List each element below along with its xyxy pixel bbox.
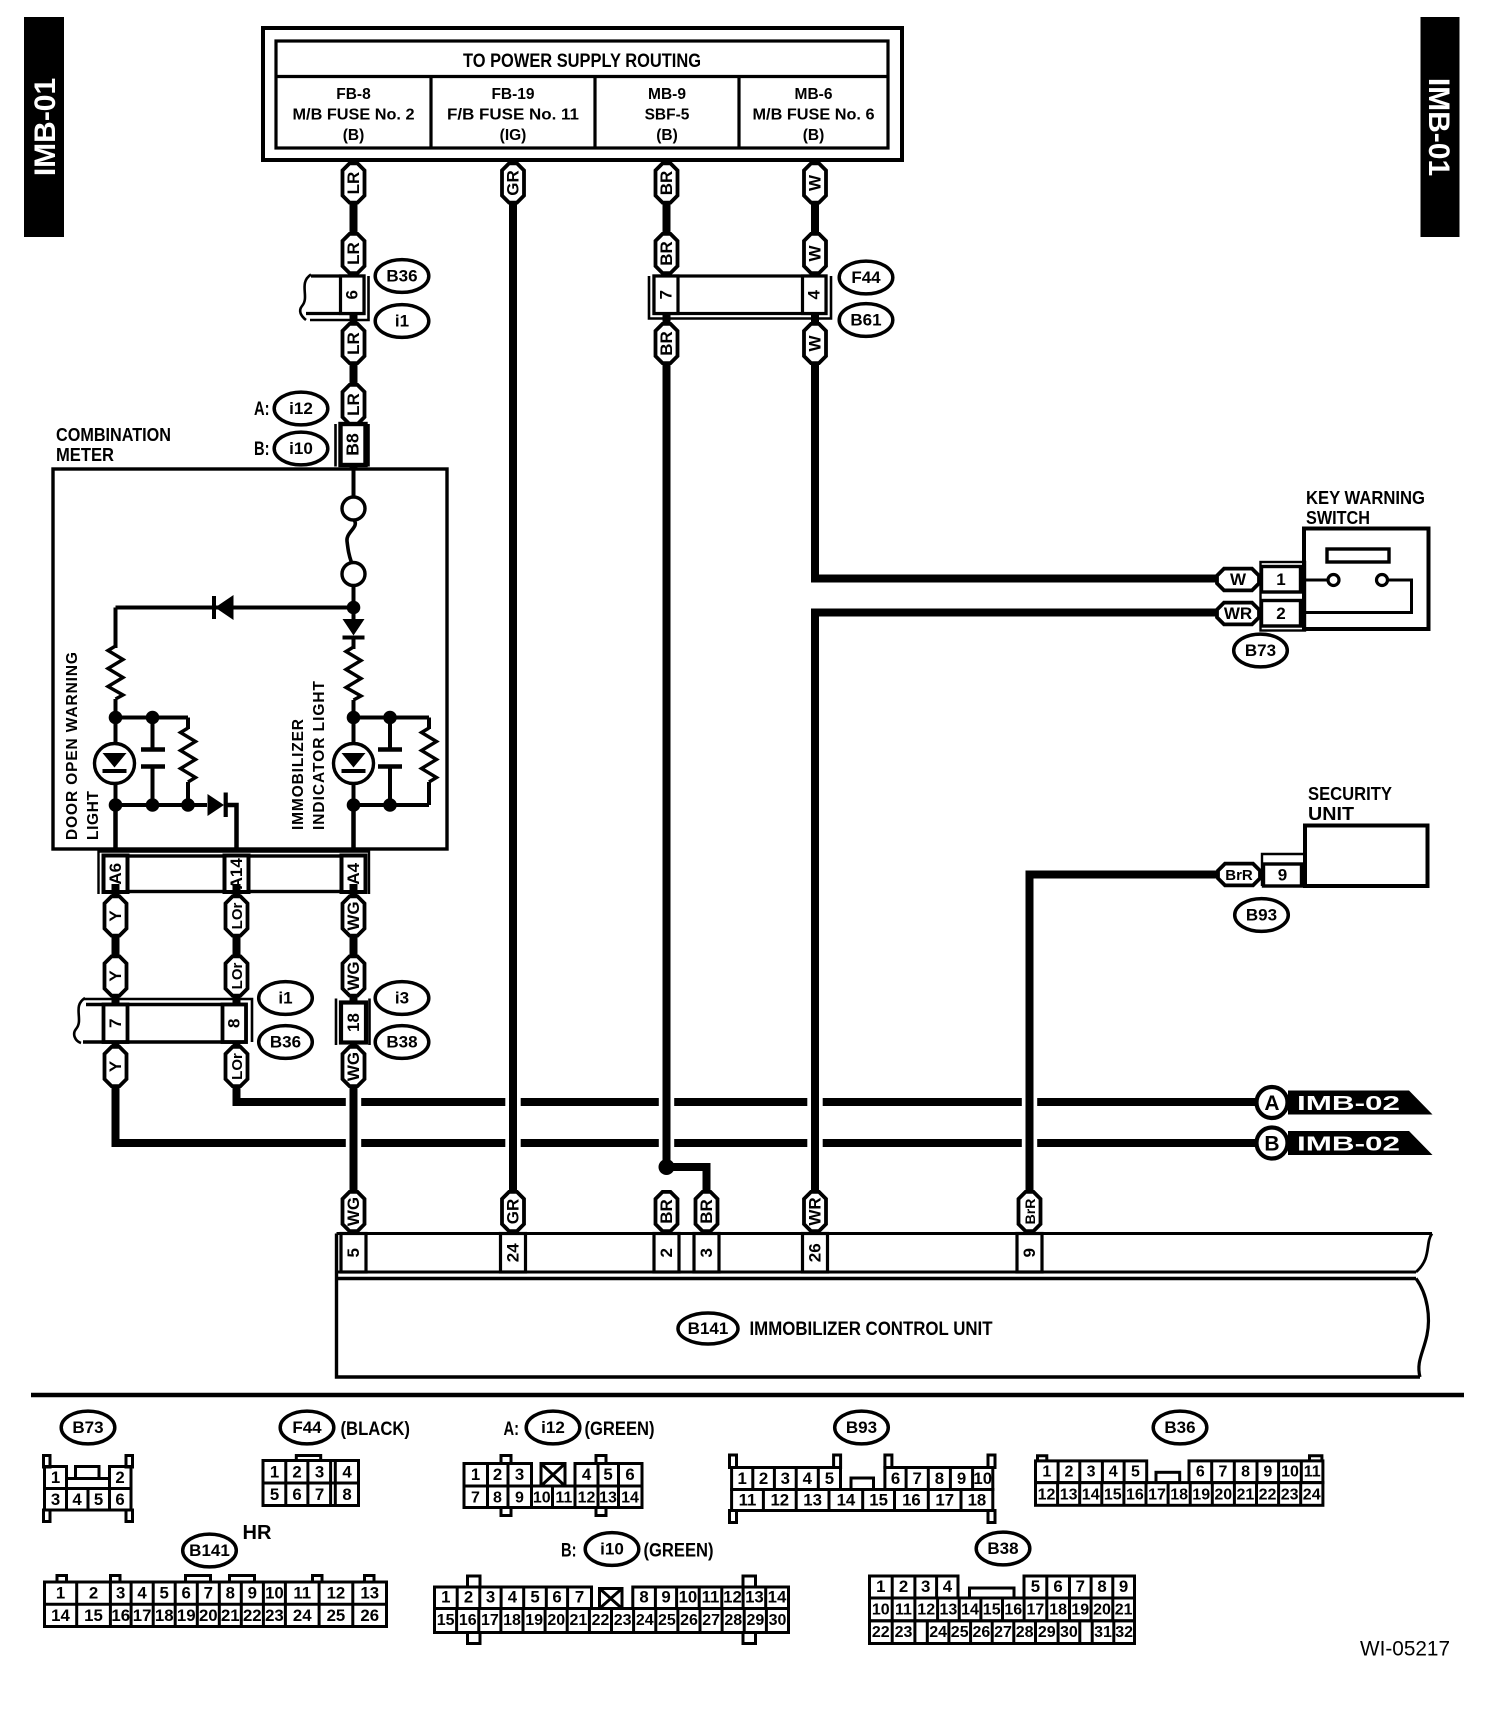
svg-text:11: 11 <box>1304 1464 1321 1481</box>
pin cell 2 <box>654 1234 679 1273</box>
svg-text:17: 17 <box>133 1606 152 1625</box>
connector tag WG <box>343 956 365 995</box>
svg-text:22: 22 <box>1259 1487 1277 1504</box>
svg-text:8: 8 <box>342 1485 351 1504</box>
svg-text:LR: LR <box>344 172 363 195</box>
svg-text:1: 1 <box>56 1584 65 1603</box>
svg-text:8: 8 <box>493 1490 502 1507</box>
svg-text:12: 12 <box>770 1491 789 1510</box>
pin cell 9 <box>1264 864 1302 886</box>
svg-text:8: 8 <box>935 1469 944 1488</box>
in-line connector B36/i1 cell 6 <box>300 275 368 321</box>
svg-text:23: 23 <box>1281 1487 1299 1504</box>
svg-text:5: 5 <box>94 1490 103 1509</box>
svg-text:21: 21 <box>1237 1487 1255 1504</box>
connector label oval B61 <box>839 304 893 337</box>
svg-text:16: 16 <box>459 1612 477 1629</box>
svg-text:22: 22 <box>592 1612 610 1629</box>
svg-text:i3: i3 <box>395 988 409 1007</box>
svg-text:WG: WG <box>344 961 363 990</box>
svg-text:14: 14 <box>768 1588 787 1607</box>
svg-text:4: 4 <box>137 1584 147 1603</box>
svg-text:16: 16 <box>1004 1602 1022 1619</box>
node meter junction <box>347 601 361 615</box>
svg-text:3: 3 <box>116 1584 125 1603</box>
svg-text:4: 4 <box>582 1465 592 1484</box>
svg-text:10: 10 <box>872 1602 890 1619</box>
svg-text:23: 23 <box>895 1624 913 1641</box>
capacitor C1 <box>141 750 165 767</box>
svg-text:WI-05217: WI-05217 <box>1360 1637 1450 1661</box>
security unit box <box>1305 784 1428 886</box>
wire to door open warning branch <box>116 606 354 610</box>
svg-text:B: B <box>1264 1133 1279 1156</box>
svg-text:FB-8: FB-8 <box>336 86 371 103</box>
pin cell 3 <box>694 1234 719 1273</box>
svg-text:1: 1 <box>1042 1464 1051 1481</box>
in-line connector F44/B61 <box>649 276 831 319</box>
svg-text:1: 1 <box>876 1577 885 1596</box>
wire <box>186 782 190 805</box>
svg-text:LR: LR <box>344 332 363 355</box>
wire <box>114 608 118 649</box>
svg-text:A6: A6 <box>106 863 125 885</box>
svg-text:5: 5 <box>825 1469 834 1488</box>
svg-text:17: 17 <box>1148 1487 1166 1504</box>
svg-text:6: 6 <box>1053 1577 1062 1596</box>
svg-text:10: 10 <box>679 1588 698 1607</box>
svg-text:(GREEN): (GREEN) <box>585 1419 655 1440</box>
svg-text:6: 6 <box>292 1485 301 1504</box>
svg-text:A: A <box>1264 1092 1279 1115</box>
svg-text:3: 3 <box>51 1490 60 1509</box>
svg-text:BR: BR <box>657 331 676 356</box>
svg-text:3: 3 <box>515 1465 524 1484</box>
svg-text:9: 9 <box>515 1490 524 1507</box>
svg-text:7: 7 <box>204 1584 213 1603</box>
connector label oval F44 <box>839 261 893 294</box>
svg-text:11: 11 <box>895 1602 912 1619</box>
svg-text:11: 11 <box>293 1584 311 1603</box>
pin cell 8 <box>223 1005 247 1043</box>
connector tag W <box>804 234 826 273</box>
svg-text:10: 10 <box>1281 1464 1299 1481</box>
svg-text:26: 26 <box>805 1243 824 1262</box>
svg-text:16: 16 <box>111 1606 130 1625</box>
svg-text:BR: BR <box>657 241 676 266</box>
svg-text:W: W <box>806 335 825 352</box>
connector label oval i1 <box>375 305 429 338</box>
wire to A4 <box>351 805 356 852</box>
svg-text:2: 2 <box>657 1248 676 1257</box>
svg-text:LR: LR <box>344 393 363 416</box>
svg-text:2: 2 <box>759 1469 768 1488</box>
svg-text:6: 6 <box>1196 1464 1205 1481</box>
svg-text:BrR: BrR <box>1022 1199 1038 1225</box>
svg-text:15: 15 <box>84 1606 103 1625</box>
svg-text:5: 5 <box>530 1588 539 1607</box>
svg-text:3: 3 <box>781 1469 790 1488</box>
wire <box>388 718 392 806</box>
connector tag BrR <box>1019 1192 1041 1231</box>
svg-text:4: 4 <box>803 1469 813 1488</box>
resistor R4 <box>422 728 437 782</box>
svg-text:WR: WR <box>1224 604 1252 623</box>
svg-text:5: 5 <box>270 1485 279 1504</box>
svg-text:12: 12 <box>917 1602 935 1619</box>
wire Y column to IMB-02 B <box>116 884 1258 1143</box>
svg-text:B36: B36 <box>270 1032 301 1051</box>
svg-text:1: 1 <box>51 1468 60 1487</box>
svg-text:IMMOBILIZER CONTROL UNIT: IMMOBILIZER CONTROL UNIT <box>750 1319 993 1340</box>
svg-text:B38: B38 <box>987 1539 1018 1558</box>
svg-text:18: 18 <box>968 1491 987 1510</box>
connector label oval i12 <box>274 392 328 425</box>
connector bracket B73 pins <box>1261 562 1306 631</box>
connector B141 pin grid <box>45 1576 387 1627</box>
connector label oval B38 <box>976 1532 1030 1565</box>
connector tag Y <box>105 956 127 995</box>
connector bracket B93 pin 9 <box>1262 854 1305 886</box>
svg-text:(GREEN): (GREEN) <box>644 1541 714 1562</box>
connector label oval B73 <box>61 1411 115 1444</box>
svg-text:9: 9 <box>248 1584 257 1603</box>
svg-text:17: 17 <box>935 1491 954 1510</box>
wire to A6 <box>113 805 118 852</box>
svg-text:1: 1 <box>471 1465 480 1484</box>
svg-text:1: 1 <box>738 1469 747 1488</box>
pin cell 18 <box>341 1003 366 1043</box>
svg-text:COMBINATION: COMBINATION <box>56 425 171 445</box>
in-line connector B36/i1 cells 7,8 <box>74 998 252 1043</box>
immobilizer control unit box <box>337 1234 1429 1378</box>
svg-text:16: 16 <box>902 1491 921 1510</box>
svg-text:7: 7 <box>471 1490 480 1507</box>
svg-text:F/B FUSE No. 11: F/B FUSE No. 11 <box>447 107 579 124</box>
key slot symbol <box>1327 549 1389 562</box>
connector label oval B36 <box>1153 1411 1207 1444</box>
svg-text:WG: WG <box>344 1197 363 1226</box>
svg-text:20: 20 <box>1214 1487 1232 1504</box>
connector F44 pin grid <box>263 1456 359 1506</box>
svg-text:B36: B36 <box>1164 1418 1195 1437</box>
connector tag WR <box>804 1192 826 1231</box>
svg-text:IMMOBILIZER: IMMOBILIZER <box>290 719 307 830</box>
svg-text:W: W <box>806 174 825 191</box>
svg-text:21: 21 <box>1115 1602 1133 1619</box>
svg-text:B:: B: <box>254 439 270 460</box>
connector label oval B141 <box>183 1534 237 1567</box>
page tab IMB-01 right <box>1421 17 1460 237</box>
svg-text:21: 21 <box>569 1612 587 1629</box>
svg-text:B8: B8 <box>343 433 363 456</box>
svg-text:MB-6: MB-6 <box>795 86 833 103</box>
svg-text:BR: BR <box>657 171 676 196</box>
svg-text:20: 20 <box>1093 1602 1111 1619</box>
svg-text:M/B FUSE No. 2: M/B FUSE No. 2 <box>293 107 415 124</box>
combination meter box <box>53 425 447 849</box>
pin cell A6 <box>104 856 128 893</box>
svg-text:12: 12 <box>327 1584 346 1603</box>
svg-text:4: 4 <box>805 289 824 299</box>
svg-text:4: 4 <box>1109 1464 1118 1481</box>
svg-text:8: 8 <box>226 1584 235 1603</box>
svg-text:7: 7 <box>575 1588 584 1607</box>
svg-text:1: 1 <box>1276 570 1285 589</box>
svg-text:BR: BR <box>657 1199 676 1224</box>
svg-text:9: 9 <box>1263 1464 1272 1481</box>
svg-text:15: 15 <box>1104 1487 1122 1504</box>
connector B73 pin grid <box>44 1456 133 1522</box>
svg-text:i12: i12 <box>289 399 313 418</box>
connector label oval B141 <box>678 1313 738 1344</box>
svg-text:KEY WARNING: KEY WARNING <box>1306 488 1425 508</box>
LED door open warning light <box>95 744 135 784</box>
connector tag GR <box>502 163 524 202</box>
wire WG column to immobilizer pin 5 <box>350 884 358 1192</box>
svg-text:24: 24 <box>929 1624 947 1641</box>
svg-text:9: 9 <box>661 1588 670 1607</box>
meter connector strip <box>99 852 370 895</box>
svg-text:27: 27 <box>994 1624 1012 1641</box>
svg-text:B:: B: <box>561 1540 577 1562</box>
svg-text:28: 28 <box>724 1612 742 1629</box>
resistor R3 <box>346 647 361 700</box>
svg-text:26: 26 <box>973 1624 991 1641</box>
svg-text:7: 7 <box>656 290 675 299</box>
svg-text:17: 17 <box>1027 1602 1045 1619</box>
immobilizer control unit connector strip <box>337 1234 1433 1273</box>
svg-text:i10: i10 <box>600 1539 624 1558</box>
pin cell 9 <box>1017 1234 1042 1273</box>
connector tag WG <box>343 1047 365 1086</box>
svg-text:24: 24 <box>293 1606 312 1625</box>
svg-text:3: 3 <box>1087 1464 1096 1481</box>
arrow flag A IMB-02 <box>1257 1087 1433 1118</box>
wire LOr column to IMB-02 A <box>237 884 1258 1102</box>
svg-text:7: 7 <box>1219 1464 1228 1481</box>
label door open warning light <box>64 652 102 840</box>
svg-text:IMB-01: IMB-01 <box>29 78 62 176</box>
svg-text:3: 3 <box>697 1248 716 1257</box>
connector tag WR <box>1217 603 1259 625</box>
connector tag BR <box>696 1192 718 1231</box>
connector label oval i12 <box>526 1411 580 1444</box>
svg-text:GR: GR <box>504 1199 523 1225</box>
svg-text:20: 20 <box>547 1612 565 1629</box>
connector tag LOr <box>226 1047 248 1086</box>
svg-text:13: 13 <box>360 1584 379 1603</box>
svg-text:9: 9 <box>1020 1248 1039 1257</box>
svg-text:18: 18 <box>344 1013 363 1032</box>
lamp check coil symbol <box>342 497 365 586</box>
svg-text:B93: B93 <box>846 1418 877 1437</box>
wire <box>427 782 431 805</box>
connector tag Y <box>105 1047 127 1086</box>
wire <box>114 718 118 806</box>
svg-text:18: 18 <box>503 1612 521 1629</box>
svg-text:13: 13 <box>1060 1487 1078 1504</box>
svg-text:(BLACK): (BLACK) <box>341 1419 411 1440</box>
connector tag LR <box>343 324 365 363</box>
connector label oval i3 <box>375 982 429 1015</box>
svg-text:14: 14 <box>837 1491 856 1510</box>
connector tag LR <box>343 385 365 424</box>
svg-text:6: 6 <box>343 290 362 299</box>
diode D3 (vertical, pointing down) <box>343 619 365 638</box>
svg-text:11: 11 <box>702 1588 720 1607</box>
svg-text:INDICATOR LIGHT: INDICATOR LIGHT <box>311 680 328 830</box>
svg-text:1: 1 <box>441 1588 450 1607</box>
svg-text:28: 28 <box>1016 1624 1034 1641</box>
svg-text:M/B FUSE No. 6: M/B FUSE No. 6 <box>753 107 875 124</box>
svg-text:3: 3 <box>315 1463 324 1482</box>
svg-text:SECURITY: SECURITY <box>1308 784 1392 804</box>
svg-text:25: 25 <box>658 1612 676 1629</box>
svg-text:13: 13 <box>940 1602 958 1619</box>
pin cell 1 <box>1262 567 1301 593</box>
svg-text:WG: WG <box>344 1052 363 1081</box>
node <box>109 711 123 725</box>
connector tag LR <box>343 163 365 202</box>
svg-text:31: 31 <box>1094 1624 1112 1641</box>
svg-text:6: 6 <box>552 1588 561 1607</box>
svg-text:14: 14 <box>51 1606 70 1625</box>
resistor R1 <box>108 646 123 699</box>
connector B93 pin grid <box>730 1455 996 1523</box>
svg-text:13: 13 <box>803 1491 822 1510</box>
arrow flag B IMB-02 <box>1257 1128 1433 1159</box>
wire <box>116 716 189 720</box>
connector tag BR <box>656 324 678 363</box>
connector tag Y <box>105 896 127 935</box>
svg-text:12: 12 <box>1038 1487 1056 1504</box>
separator rule <box>31 1393 1464 1398</box>
resistor R2 <box>181 728 196 782</box>
svg-text:19: 19 <box>1071 1602 1089 1619</box>
svg-text:8: 8 <box>1097 1577 1106 1596</box>
svg-text:23: 23 <box>265 1606 284 1625</box>
svg-text:14: 14 <box>621 1490 639 1507</box>
svg-text:10: 10 <box>533 1490 551 1507</box>
svg-text:B93: B93 <box>1246 905 1277 924</box>
pin cell 7 <box>104 1005 128 1043</box>
svg-text:LR: LR <box>344 242 363 265</box>
svg-text:2: 2 <box>89 1584 98 1603</box>
svg-text:18: 18 <box>1170 1487 1188 1504</box>
svg-text:LIGHT: LIGHT <box>85 790 102 840</box>
svg-text:A4: A4 <box>344 862 363 884</box>
wire W column from MB-6 to key warning switch <box>815 160 1218 579</box>
svg-text:B73: B73 <box>1245 641 1276 660</box>
svg-text:5: 5 <box>344 1248 363 1257</box>
svg-text:29: 29 <box>1038 1624 1056 1641</box>
node <box>383 711 397 725</box>
connector tag WG <box>343 1192 365 1231</box>
svg-text:i10: i10 <box>289 439 313 458</box>
connector B8 <box>336 424 369 467</box>
svg-text:13: 13 <box>745 1588 764 1607</box>
svg-text:26: 26 <box>680 1612 698 1629</box>
svg-text:2: 2 <box>899 1577 908 1596</box>
svg-text:B73: B73 <box>72 1418 103 1437</box>
svg-text:MB-9: MB-9 <box>648 86 686 103</box>
node <box>347 798 361 812</box>
svg-text:IMB-02: IMB-02 <box>1297 1134 1400 1156</box>
svg-text:W: W <box>806 245 825 262</box>
pin cell 2 <box>1262 601 1301 627</box>
svg-text:Y: Y <box>106 1060 125 1072</box>
wire GR column from FB-19 <box>509 160 517 1192</box>
connector B38 pin grid <box>870 1576 1135 1644</box>
svg-text:B141: B141 <box>688 1319 729 1338</box>
svg-text:3: 3 <box>921 1577 930 1596</box>
wire <box>427 718 431 730</box>
wire <box>352 586 356 608</box>
svg-text:32: 32 <box>1115 1624 1133 1641</box>
wire BR branch to pin 3 <box>667 1167 707 1192</box>
svg-text:METER: METER <box>56 445 114 465</box>
svg-text:30: 30 <box>1060 1624 1078 1641</box>
label immobilizer indicator light <box>290 680 328 830</box>
connector label oval B93 <box>1235 899 1289 932</box>
node <box>347 711 361 725</box>
svg-text:B61: B61 <box>850 310 881 329</box>
svg-text:(B): (B) <box>803 127 825 144</box>
svg-text:2: 2 <box>115 1468 124 1487</box>
svg-text:BrR: BrR <box>1225 867 1253 884</box>
capacitor C2 <box>378 750 402 767</box>
svg-text:UNIT: UNIT <box>1308 804 1354 824</box>
connector label oval i10 <box>274 432 328 465</box>
svg-text:BR: BR <box>697 1199 716 1224</box>
svg-text:15: 15 <box>437 1612 455 1629</box>
svg-text:8: 8 <box>1241 1464 1250 1481</box>
svg-text:DOOR OPEN WARNING: DOOR OPEN WARNING <box>64 652 81 840</box>
svg-text:10: 10 <box>265 1584 284 1603</box>
svg-text:10: 10 <box>973 1469 992 1488</box>
svg-text:18: 18 <box>1049 1602 1067 1619</box>
node <box>146 798 160 812</box>
svg-text:(IG): (IG) <box>500 127 527 144</box>
pin cell 7 <box>654 276 678 314</box>
wire <box>352 608 356 650</box>
page tab IMB-01 left <box>24 17 64 237</box>
svg-text:LOr: LOr <box>229 963 246 990</box>
wire WR from key warning switch to immobilizer pin 26 <box>815 613 1218 1193</box>
svg-text:F44: F44 <box>851 268 881 287</box>
svg-text:12: 12 <box>723 1588 742 1607</box>
svg-text:27: 27 <box>702 1612 720 1629</box>
svg-text:24: 24 <box>1303 1487 1321 1504</box>
connector tag W <box>804 163 826 202</box>
svg-text:24: 24 <box>503 1243 522 1262</box>
connector i12 pin grid <box>464 1456 642 1516</box>
connector label oval F44 <box>280 1411 334 1444</box>
svg-text:19: 19 <box>177 1606 196 1625</box>
svg-text:2: 2 <box>1276 604 1285 623</box>
pin cell 5 <box>341 1234 366 1273</box>
svg-text:18: 18 <box>155 1606 174 1625</box>
switch terminal contacts <box>1328 575 1339 586</box>
svg-text:7: 7 <box>1076 1577 1085 1596</box>
svg-text:19: 19 <box>525 1612 543 1629</box>
wire BR column from MB-9 <box>663 160 671 1167</box>
svg-text:2: 2 <box>1064 1464 1073 1481</box>
wire <box>354 716 430 720</box>
wire <box>151 718 155 806</box>
svg-text:FB-19: FB-19 <box>491 86 534 103</box>
